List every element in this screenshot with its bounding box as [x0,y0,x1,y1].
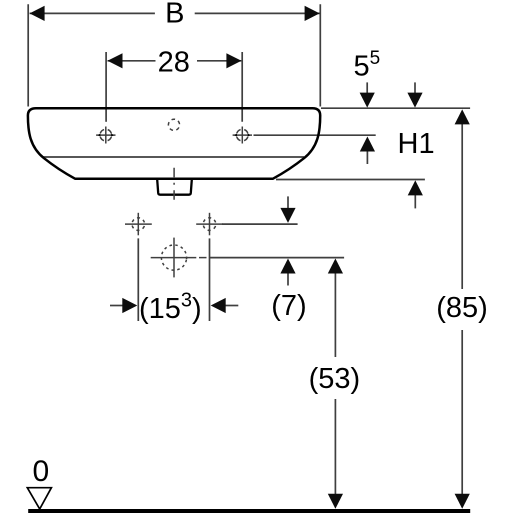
dimension B extension line right [319,4,321,106]
dimension 7 upper arrow stub [287,196,289,210]
arrow 28 left [108,53,123,68]
basin top reference line right [321,107,470,109]
siphon connection [151,238,207,278]
basin outline [28,108,320,195]
arrow H1 up [408,180,423,195]
dimension B line [30,12,155,14]
arrow 15-3 right [211,298,226,313]
tap hole right [233,127,252,144]
arrow 7 up [280,259,295,274]
dimension H1 upper arrow stub [414,82,416,100]
dimension 7 lower arrow stub [287,271,289,286]
dimension 15-3 extension line right [209,238,211,321]
fixing hole right [196,213,223,236]
tap hole level line (H1 top ref) [254,134,376,136]
overflow hole dashed circle [168,118,181,131]
arrow 28 right [226,53,241,68]
arrow 53 down [328,494,343,509]
svg-text:(85): (85) [436,292,488,324]
dimension 28 extension line right [241,52,243,122]
dimension 28 extension line left [105,52,107,122]
dimension 28 line [108,60,156,62]
svg-text:(7): (7) [271,290,306,322]
dimension 85 line [461,120,463,289]
svg-text:(153): (153) [139,289,202,324]
dimension 15-3 extension line left [137,238,139,321]
arrow 53 up [328,259,343,274]
arrow 7 down [280,208,295,223]
arrow 85 down [455,494,470,509]
svg-text:28: 28 [158,46,190,78]
dimension H1 lower arrow stub [414,193,416,208]
svg-text:0: 0 [33,455,50,488]
svg-text:H1: H1 [398,128,435,160]
arrow 5-5 up [360,137,375,152]
arrow 85 up [455,109,470,124]
tap hole left [96,127,115,144]
arrow 5-5 down [360,93,375,108]
dimension 53 line [334,270,336,357]
lower fixing hole level line [222,223,298,225]
siphon level line [210,257,345,259]
svg-text:B: B [165,0,184,30]
arrow B right [305,6,320,21]
basin inner rim line [44,156,305,158]
drain fitting [157,180,192,195]
floor line [28,509,470,513]
drain centerline [173,168,175,203]
arrow 15-3 left [122,298,137,313]
dimension 5-5 lower arrow stub [366,149,368,164]
dimension 5-5 upper arrow stub [366,82,368,100]
arrow H1 down [407,93,422,108]
basin bottom reference line right [276,179,425,181]
dimension 15-3 arrow tails [110,305,123,307]
dimension B extension line left [27,4,29,106]
svg-text:(53): (53) [309,363,361,395]
arrow B left [30,6,45,21]
fixing hole left [125,213,152,236]
datum triangle [27,488,51,509]
